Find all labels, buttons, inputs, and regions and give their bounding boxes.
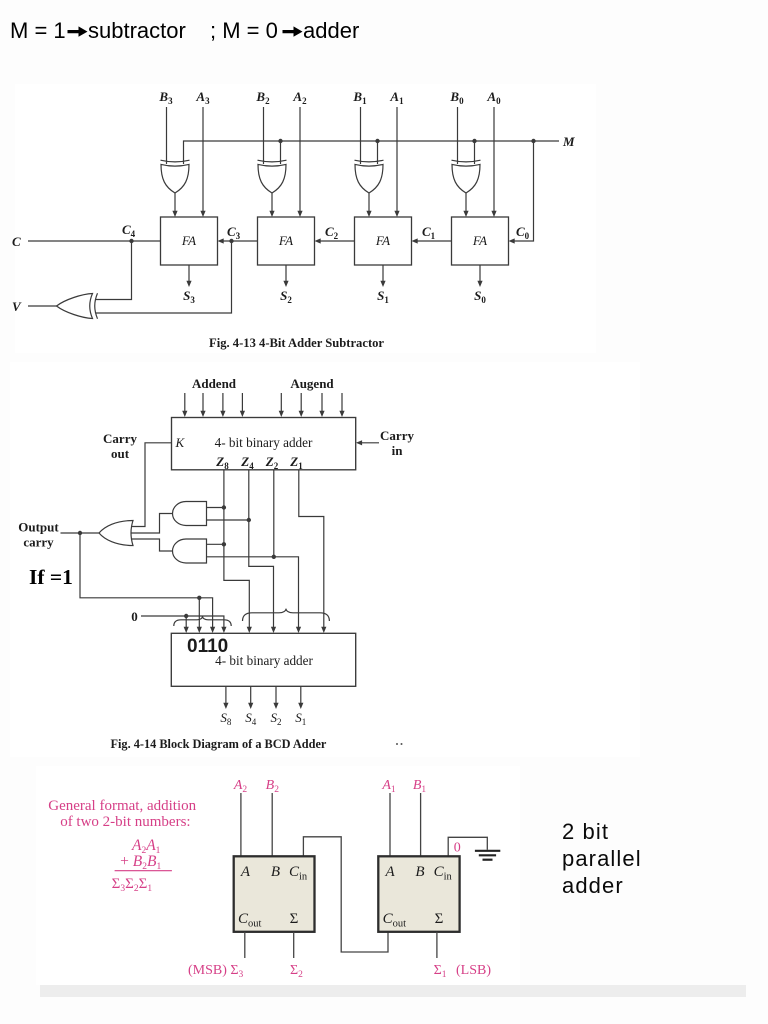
svg-text:Σ: Σ [435,911,444,927]
xor gate X5 overflow [57,293,98,318]
figure 2 background [10,362,640,757]
wire S4 output [250,686,252,703]
4-bit binary adder box U1 [172,418,356,470]
svg-text:carry: carry [23,535,54,550]
svg-text:Fig. 4-13 4-Bit Adder Subtrac: Fig. 4-13 4-Bit Adder Subtractor [209,336,384,350]
wire Z8 down with jog [224,470,249,628]
heading text M=1 subtractor [10,18,359,43]
addend input arrows [182,393,344,417]
brace left group [174,616,231,626]
svg-text:4- bit binary adder: 4- bit binary adder [215,435,313,450]
arrowhead S3 [186,281,191,287]
arrowhead carry in [356,440,362,445]
junction dot M xor4 [472,139,476,143]
wire A1 input [396,107,398,212]
svg-text:4- bit binary adder: 4- bit binary adder [215,653,313,668]
figure 1 background [15,84,596,353]
wire Cout left output [244,932,246,958]
or gate G3 [99,521,133,546]
svg-text:B: B [415,864,424,880]
arrowhead A1 into FA3 [394,211,399,217]
wire Sigma1 output [436,932,438,958]
arrowhead C3 into FA1 [218,238,224,243]
wire AND2 output to OR [131,539,174,551]
wire AND2 input 1 from Z8 [207,543,224,545]
svg-text:out: out [111,446,130,461]
arrowhead Z1 into second adder [321,627,326,633]
adder box FA1 (right, LSB) [378,856,459,932]
arrowhead xor4 into FA4 [463,211,468,217]
wire M branch down to C0 [515,141,534,241]
wire xor3 output [368,193,370,212]
svg-text:of two 2-bit numbers:: of two 2-bit numbers: [60,814,190,830]
wire carry in arrow [362,442,379,444]
svg-text:B: B [271,864,280,880]
arrowhead C2 into FA2 [315,238,321,243]
arrowhead A0 into FA4 [491,211,496,217]
svg-text:; M = 0: ; M = 0 [210,18,278,43]
svg-text:0: 0 [454,841,461,856]
arrowhead 0 into second adder pos4 [221,627,226,633]
junction dot C4 [129,239,133,243]
wire C3 feedback down to V xor [96,241,232,313]
arrowhead C1 into FA3 [412,238,418,243]
arrowhead S8 [223,703,228,709]
wire B3 input [166,107,168,164]
wire carry C2 FA3 to FA2 [321,240,355,242]
wire carry ripple right Cout to left Cin [303,837,388,952]
svg-text:Fig. 4-14 Block Diagram of a: Fig. 4-14 Block Diagram of a BCD Adder [111,737,327,751]
arrowhead xor1 into FA1 [172,211,177,217]
grey band bottom [40,985,746,997]
wire AND1 output to OR [130,514,173,534]
arrowhead A3 into FA1 [200,211,205,217]
heading arrow 2 [283,26,303,36]
svg-text:Σ3Σ2Σ1: Σ3Σ2Σ1 [112,876,153,894]
arrowhead xor3 into FA3 [366,211,371,217]
arrowhead carry into second adder pos3 [210,627,215,633]
junction dot 0 line [184,614,188,618]
svg-text:(LSB): (LSB) [456,963,491,978]
svg-text:(MSB) Σ3: (MSB) Σ3 [188,963,244,980]
svg-text:Addend: Addend [192,376,237,391]
junction dot Z8 AND1 [222,505,226,509]
junction dot M xor3 [375,139,379,143]
ground symbol [475,851,500,860]
wire C output line [28,240,161,242]
svg-text:A: A [385,864,396,880]
wire B1 input [360,107,362,164]
full adder FA3 [355,217,412,265]
wire 0 branch pos1 [185,616,187,628]
wire 0 line [141,616,224,628]
svg-text:in: in [392,443,404,458]
svg-text:A: A [240,864,251,880]
svg-text:General format, addition: General format, addition [48,798,196,814]
svg-text:Carry: Carry [103,431,137,446]
wire A2 input [240,793,242,856]
arrowhead C0 into FA4 [509,238,515,243]
svg-text:Augend: Augend [290,376,334,391]
full adder FA2 [258,217,315,265]
xor gate X3 [355,160,384,193]
wire B2 input [271,793,273,856]
wire carry branch pos2 [198,598,200,628]
wire S8 output [225,686,227,703]
svg-text:parallel: parallel [562,846,642,871]
wire A0 input [493,107,495,212]
svg-text:FA: FA [278,233,293,248]
heading arrow 1 [68,26,88,36]
junction dot Z2 AND2 [272,555,276,559]
svg-text:adder: adder [562,873,624,898]
full adder FA1 [161,217,218,265]
junction dot Z8 AND2 [222,542,226,546]
arrowhead A2 into FA2 [297,211,302,217]
wire B1 input [420,793,422,856]
wire A3 input [202,107,204,212]
arrowhead S1 out [298,703,303,709]
svg-text:Output: Output [18,520,59,535]
wire M branch to xor3 [377,141,379,164]
arrowhead S0 [477,281,482,287]
wire Z2 horizontal to AND2 and jog down [207,557,299,628]
wire A2 input [299,107,301,212]
figure 3 background [36,766,520,985]
arrowhead carry into second adder pos2 [197,627,202,633]
wire S1 output [382,265,384,282]
wire Z4 down with jog [249,470,274,628]
svg-text:Carry: Carry [380,428,414,443]
wire Z2 down [273,470,275,557]
wire B0 input [457,107,459,164]
wire Sigma2 output [293,932,295,958]
svg-text:0: 0 [131,609,138,624]
svg-text:M: M [562,134,575,149]
svg-text:FA: FA [181,233,196,248]
junction dot Z4 AND1 [247,518,251,522]
adder box FA2 (left, MSB) [234,856,315,932]
wire S2 output [285,265,287,282]
arrowhead S4 [248,703,253,709]
svg-text:subtractor: subtractor [88,18,186,43]
svg-text:FA: FA [375,233,390,248]
svg-text:2 bit: 2 bit [562,819,609,844]
wire AND1 input 1 from Z8 [207,507,224,509]
svg-text:K: K [175,435,186,450]
wire OR output to Output carry [61,532,100,534]
svg-text:FA: FA [472,233,487,248]
arrowhead S2 out [273,703,278,709]
arrowhead Z8 into second adder [247,627,252,633]
junction dot C3 feedback [229,239,233,243]
svg-text:If =1: If =1 [29,565,73,589]
wire V output [28,305,57,307]
wire output carry feedback [80,533,213,628]
wire A1 input [389,793,391,856]
4-bit binary adder box U2 [171,633,355,686]
xor gate X4 [452,160,481,193]
xor gate X1 [161,160,190,193]
wire AND1 input 2 from Z4 [207,519,249,521]
full adder FA4 [452,217,509,265]
arrowhead xor2 into FA2 [269,211,274,217]
augend input arrows [280,393,282,412]
wire xor1 output [174,193,176,212]
wire C4 branch down to V xor [96,241,132,300]
arrowhead S1 [380,281,385,287]
wire S0 output [479,265,481,282]
junction dot output carry [78,531,82,535]
wire carry C3 FA2 to FA1 [224,240,258,242]
wire M horizontal line [184,141,560,164]
wire xor4 output [465,193,467,212]
wire S2 output [275,686,277,703]
arrowhead S2 [283,281,288,287]
and gate G1 [173,502,207,526]
arrowhead Z4 into second adder [271,627,276,633]
wire M branch to xor4 [474,141,476,164]
wire B2 input [263,107,265,164]
dots after caption [396,743,398,745]
wire right Cin to ground [448,837,487,856]
wire M branch to xor2 [280,141,282,164]
svg-text:adder: adder [303,18,359,43]
wire xor2 output [271,193,273,212]
arrowhead 0 into second adder pos1 [184,627,189,633]
sum underline [115,870,172,872]
wire K to OR gate [131,443,172,527]
brace right group [243,609,330,621]
junction dot carry feedback [197,596,201,600]
junction dot M C0 [531,139,535,143]
wire S1 output [300,686,302,703]
svg-text:C: C [12,234,21,249]
svg-text:V: V [12,299,22,314]
wire Z1 down with jog [299,470,324,628]
svg-text:Σ: Σ [290,911,299,927]
svg-text:M = 1: M = 1 [10,18,66,43]
xor gate X2 [258,160,287,193]
junction dot M xor2 [278,139,282,143]
wire carry C1 FA4 to FA3 [418,240,452,242]
and gate G2 [173,539,207,563]
svg-text:+ B2B1: + B2B1 [120,853,161,872]
arrowhead Z2 into second adder [296,627,301,633]
wire S3 output [188,265,190,282]
